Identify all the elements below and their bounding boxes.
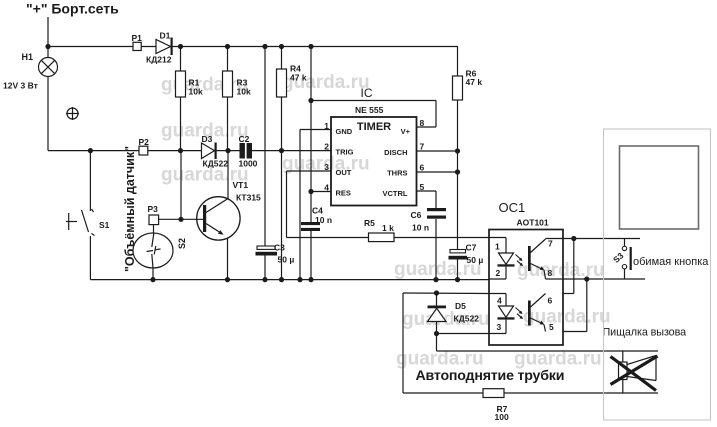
svg-text:S2: S2: [177, 238, 187, 249]
svg-text:R5: R5: [364, 218, 375, 228]
capacitor C4 10n: [301, 206, 332, 232]
svg-text:guarda.ru: guarda.ru: [161, 75, 249, 96]
capacitor C3 50µ: [256, 243, 295, 265]
svg-text:C4: C4: [312, 206, 323, 216]
sensor S2: [133, 225, 187, 280]
pin 4 RES: [324, 183, 351, 198]
wire top rail: [48, 46, 458, 48]
svg-text:C3: C3: [274, 243, 285, 253]
svg-text:guarda.ru: guarda.ru: [396, 349, 484, 370]
ground plus symbol: [66, 107, 79, 120]
LED bottom of OC1: [498, 306, 515, 334]
wire pin3 lead: [489, 333, 506, 335]
wire THRS pin6: [417, 171, 458, 173]
op-amp U1 NE555 timer box: [331, 86, 417, 206]
svg-text:7: 7: [420, 142, 425, 152]
pin 2 TRIG: [324, 142, 353, 157]
svg-text:H1: H1: [22, 52, 34, 62]
fuse P3: [148, 204, 159, 225]
svg-text:КТ315: КТ315: [236, 193, 261, 203]
svg-text:10k: 10k: [237, 87, 251, 97]
svg-text:TRIG: TRIG: [336, 148, 354, 157]
transistor VT1 KT315: [197, 180, 261, 240]
svg-text:обимая кнопка: обимая кнопка: [633, 256, 709, 268]
wire GND pin1: [300, 130, 331, 280]
svg-text:C2: C2: [239, 134, 250, 144]
wire P3 to base: [159, 218, 204, 220]
svg-text:50 µ: 50 µ: [278, 255, 295, 265]
svg-text:10 n: 10 n: [412, 223, 429, 233]
speaker connection: [622, 351, 624, 393]
svg-text:47 k: 47 k: [290, 73, 307, 83]
wire lamp to corner: [47, 77, 49, 151]
svg-text:OC1: OC1: [499, 200, 526, 215]
resistor R7 100: [483, 389, 509, 422]
svg-text:1000: 1000: [239, 159, 258, 169]
svg-text:C6: C6: [411, 210, 422, 220]
svg-text:THRS: THRS: [387, 169, 407, 178]
node junction D5 top: [434, 290, 439, 295]
svg-text:Автоподнятие трубки: Автоподнятие трубки: [416, 368, 565, 384]
wire supply stem: [47, 17, 49, 58]
LED top of OC1: [498, 253, 515, 279]
diode D3 КД522: [202, 134, 229, 169]
wire V+ feed pin8: [311, 101, 436, 128]
resistor R1 10k: [176, 47, 203, 151]
pin 6 THRS: [387, 163, 424, 178]
phototransistor bottom of OC1: [528, 294, 546, 332]
svg-text:P3: P3: [148, 204, 159, 214]
svg-text:КД522: КД522: [454, 314, 480, 324]
switch S3: [611, 239, 632, 280]
wire rail2 left: [48, 150, 240, 152]
fuse P2: [139, 137, 150, 155]
svg-text:VCTRL: VCTRL: [383, 189, 408, 198]
svg-text:D3: D3: [202, 134, 213, 144]
diode D5 КД522: [428, 293, 480, 351]
speaker symbol: [619, 356, 657, 381]
svg-text:P1: P1: [132, 33, 143, 43]
svg-text:3: 3: [497, 322, 502, 332]
capacitor C7 50µ: [449, 243, 484, 266]
svg-text:AOT101: AOT101: [517, 217, 549, 227]
node junction pin8: [584, 276, 589, 281]
svg-text:50 µ: 50 µ: [467, 255, 484, 265]
wire pin5: [563, 331, 587, 333]
wire RES C4 branch: [310, 47, 312, 280]
svg-text:guarda.ru: guarda.ru: [514, 349, 602, 370]
wire pin2 lead: [489, 278, 506, 280]
pin 8 V+: [401, 118, 425, 136]
wire bottom rail: [90, 279, 489, 281]
svg-text:1 k: 1 k: [382, 223, 394, 233]
pin 5 VCTRL: [383, 182, 425, 198]
pin 3 OUT: [324, 162, 351, 177]
phototransistor top of OC1: [528, 239, 546, 279]
svg-text:КД522: КД522: [203, 159, 229, 169]
svg-text:100: 100: [495, 412, 509, 422]
node junctions bottom rail: [150, 277, 460, 282]
wire pin6: [563, 293, 574, 295]
svg-text:1: 1: [495, 242, 500, 252]
svg-text:6: 6: [548, 296, 553, 306]
wire pin7 to S3 top: [546, 238, 641, 240]
svg-text:6: 6: [420, 163, 425, 173]
wire pin7 to pin6: [573, 239, 575, 294]
wire pin1 lead: [489, 238, 506, 254]
node junctions rail2: [88, 148, 284, 153]
node junction pin7: [571, 236, 576, 241]
svg-text:7: 7: [548, 239, 553, 249]
watermark guarda.ru tiles: [161, 72, 611, 370]
wire rail2 right: [252, 150, 331, 152]
svg-text:КД212: КД212: [146, 55, 172, 65]
phone box outline: [604, 129, 711, 420]
node junctions DISCH THRS: [455, 148, 460, 174]
svg-text:5: 5: [549, 322, 554, 332]
fuse P1: [132, 33, 143, 51]
svg-text:C7: C7: [466, 243, 477, 253]
node junction D5 bottom: [434, 331, 439, 336]
svg-text:DISCH: DISCH: [384, 148, 407, 157]
node "Объёмный датчик" label: [123, 146, 137, 272]
capacitor C2 1000: [239, 134, 258, 169]
svg-text:4: 4: [497, 296, 502, 306]
svg-text:2: 2: [324, 142, 329, 152]
svg-text:RES: RES: [336, 189, 351, 198]
optocoupler OC1 AOT101 box: [489, 200, 563, 345]
wire pin4 rail: [403, 292, 489, 295]
svg-text:D5: D5: [455, 301, 466, 311]
wire pin4 lead: [489, 294, 506, 307]
svg-text:S1: S1: [99, 220, 110, 230]
resistor R4 47k: [277, 47, 307, 280]
wire pin8 to pin5: [586, 279, 588, 332]
svg-text:10k: 10k: [189, 87, 203, 97]
wire RES pin4: [311, 191, 331, 193]
wire VCTRL pin5 C6 branch: [417, 191, 437, 280]
node junction top rail: [45, 44, 313, 49]
wire left drop to R7: [403, 293, 658, 393]
svg-text:V+: V+: [401, 127, 411, 136]
wire OUT pin3: [287, 171, 332, 238]
wire pin8 to S3 bottom: [546, 278, 646, 280]
lamp H1: [3, 52, 58, 91]
crossed-out X over speaker: [611, 356, 658, 391]
node "+" Борт.сеть: [26, 1, 119, 17]
LED light arrows top: [516, 255, 524, 267]
svg-text:Пищалка вызова: Пищалка вызова: [603, 327, 687, 339]
LED light arrows bottom: [516, 308, 524, 320]
svg-text:guarda.ru: guarda.ru: [523, 307, 611, 328]
resistor R3 10k: [223, 47, 251, 151]
svg-text:NE 555: NE 555: [355, 105, 384, 115]
svg-text:47 k: 47 k: [466, 77, 483, 87]
svg-text:OUT: OUT: [336, 168, 352, 177]
svg-text:10 n: 10 n: [315, 215, 332, 225]
svg-text:IC: IC: [361, 86, 373, 100]
wire base drop: [180, 151, 182, 220]
wire pin3 to D5: [437, 333, 490, 335]
wire collector: [227, 151, 229, 199]
phone inner square: [620, 146, 699, 229]
node junction RES: [308, 98, 313, 194]
node junction base: [178, 217, 183, 222]
wire speaker top: [437, 350, 659, 352]
svg-text:2: 2: [496, 268, 501, 278]
resistor R5 1k: [287, 218, 490, 242]
svg-text:12V 3 Вт: 12V 3 Вт: [3, 81, 38, 91]
svg-text:"+" Борт.сеть: "+" Борт.сеть: [26, 1, 119, 17]
svg-text:VT1: VT1: [233, 180, 249, 190]
resistor R6 47k: [453, 47, 483, 280]
svg-text:D1: D1: [160, 31, 171, 41]
pin 1 GND: [324, 121, 352, 136]
svg-text:GND: GND: [336, 127, 353, 136]
diode D1 КД212: [146, 31, 173, 65]
svg-text:8: 8: [548, 268, 553, 278]
pin 7 DISCH: [384, 142, 424, 158]
wire C3 branch: [264, 47, 266, 280]
wire DISCH pin7: [417, 150, 458, 152]
capacitor C6 10n: [411, 208, 447, 233]
svg-text:P2: P2: [139, 137, 150, 147]
svg-text:TIMER: TIMER: [357, 121, 391, 133]
wire emitter: [227, 238, 229, 280]
switch S1: [66, 151, 110, 280]
